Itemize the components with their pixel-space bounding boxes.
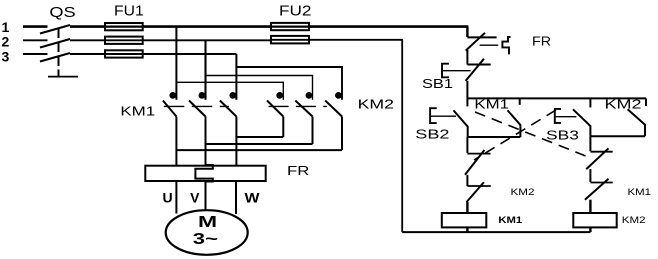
- wire L2 FU1 to FU2: [143, 39, 271, 41]
- svg-text:SB2: SB2: [415, 128, 449, 142]
- fuse FU1: [105, 2, 144, 57]
- svg-text:KM2: KM2: [622, 215, 646, 226]
- contact KM2 auxiliary NO (self hold): [628, 98, 646, 136]
- contactor KM1 main contact 1: [163, 92, 177, 117]
- contact SB3 NC (button interlock, left branch): [465, 150, 491, 175]
- wire right branch to coil: [589, 200, 591, 213]
- wire right branch down 2: [589, 169, 591, 182]
- svg-text:W: W: [245, 190, 261, 206]
- svg-text:U: U: [163, 190, 173, 206]
- svg-text:FU2: FU2: [279, 2, 312, 19]
- contact SB2 NC (button interlock, right branch): [586, 148, 612, 169]
- wire right branch down 1: [589, 136, 591, 151]
- svg-text:KM2: KM2: [605, 96, 642, 111]
- svg-text:V: V: [190, 190, 200, 206]
- wire L3 FU1 to contact column 3: [143, 53, 237, 55]
- wire FR to motor U: [175, 181, 177, 214]
- svg-text:SB1: SB1: [422, 77, 453, 91]
- svg-text:KM2: KM2: [358, 97, 394, 112]
- svg-text:SB3: SB3: [546, 129, 579, 143]
- svg-text:QS: QS: [49, 4, 75, 21]
- svg-text:KM2: KM2: [511, 187, 535, 197]
- wire coil KM2 to bottom rail: [589, 227, 591, 232]
- wire contact4 down: [282, 117, 284, 138]
- wire contact1 to FR: [175, 117, 177, 166]
- wire left branch to coil: [466, 202, 468, 213]
- wire coil KM1 to bottom rail: [466, 227, 468, 232]
- contactor KM1 main contact 3: [220, 92, 237, 117]
- KM1 main contacts linkage (dashed): [164, 105, 229, 107]
- wire SB1 to junction bar: [466, 81, 468, 99]
- wire left branch down 2: [466, 175, 468, 186]
- pushbutton SB2 (NO start fwd): [415, 98, 467, 141]
- svg-text:3~: 3~: [193, 231, 218, 248]
- wire contact2 to FR: [205, 117, 207, 166]
- wire tie contact2-contact5: [206, 143, 313, 145]
- svg-text:3: 3: [2, 49, 10, 65]
- contact KM1 auxiliary NO (self hold): [508, 98, 521, 137]
- mechanical interlock dashed SB2 to right branch: [475, 112, 592, 159]
- wire L2 in: [23, 39, 48, 41]
- svg-text:FR: FR: [532, 34, 551, 49]
- wire node right branch: [590, 135, 645, 137]
- svg-text:2: 2: [2, 34, 10, 50]
- contactor KM2 main contact 5: [295, 92, 312, 117]
- wire L2 QS to FU1: [70, 39, 106, 41]
- wire FR to motor W: [235, 181, 237, 214]
- wire vertical feed phase3 to KM1 contact3: [235, 54, 237, 100]
- wire bottom control rail: [402, 231, 590, 233]
- switch QS: [40, 4, 78, 77]
- contactor KM2 main contact 4: [267, 92, 283, 117]
- thermal relay FR heater box: [145, 164, 309, 181]
- svg-text:FU1: FU1: [114, 2, 144, 19]
- wire left control rail: [401, 40, 403, 232]
- wire L1 FU1 to FU2: [143, 25, 271, 28]
- wire node left branch: [467, 136, 520, 138]
- contactor KM1 main contact 2: [189, 92, 206, 117]
- contact KM2 NC (interlock, left branch): [467, 182, 535, 202]
- wire L3 QS to FU1: [70, 53, 106, 55]
- pushbutton SB1 (NC stop): [422, 59, 491, 91]
- wire control corner down: [466, 27, 468, 37]
- thermal relay FR NC contact (control): [466, 33, 551, 55]
- wire L3 in: [23, 53, 48, 55]
- coil KM2: [573, 213, 645, 227]
- motor M 3~: [166, 210, 248, 255]
- wire L1 FU2 to control corner: [309, 25, 468, 28]
- mechanical interlock dashed SB3 to left branch: [474, 110, 556, 160]
- wire contact5 down: [312, 117, 314, 145]
- contactor KM2 main contact 6: [325, 92, 342, 117]
- svg-text:KM1: KM1: [474, 96, 509, 111]
- wire junction bar: [467, 97, 646, 99]
- wire vertical feed phase2 to KM1 contact2: [204, 40, 206, 100]
- wire vertical feed phase1 to KM1 contact1: [175, 27, 177, 100]
- coil KM1: [442, 213, 523, 227]
- svg-text:FR: FR: [287, 164, 309, 178]
- wire L2 FU2 to left control rail: [309, 39, 403, 41]
- wire crossover phase3 to KM2 contact6: [236, 67, 342, 100]
- wire tie contact1-contact6: [176, 149, 342, 151]
- wire crossover phase1 to KM2 contact4: [176, 82, 283, 100]
- wire FR contact to SB1: [466, 50, 468, 65]
- wire L1 QS to FU1: [70, 25, 106, 28]
- svg-text:KM1: KM1: [498, 215, 523, 226]
- KM2 main contacts linkage (dashed): [269, 105, 327, 107]
- wire contact6 down: [341, 117, 343, 151]
- pushbutton SB3 (NO start rev): [546, 98, 590, 142]
- fuse FU2: [271, 2, 312, 43]
- wire tie contact3-contact4: [236, 136, 283, 138]
- wire left branch down 1: [466, 137, 468, 153]
- svg-text:KM1: KM1: [120, 103, 155, 118]
- svg-text:KM1: KM1: [628, 187, 652, 197]
- wire L1 in: [23, 25, 48, 28]
- svg-text:M: M: [198, 214, 217, 231]
- wire FR to motor V: [205, 182, 207, 211]
- wire crossover phase2 to KM2 contact5: [206, 76, 313, 100]
- wire contact3 to FR: [235, 117, 237, 166]
- contact KM1 NC (interlock, right branch): [585, 179, 651, 200]
